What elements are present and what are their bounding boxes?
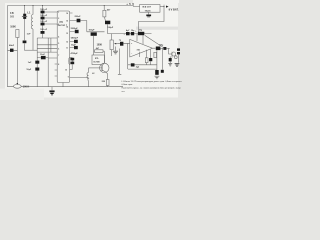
note text block [122, 81, 183, 93]
junction on rail at R2 [104, 5, 105, 6]
capacitor C3 100nF [41, 11, 45, 14]
wire feedback lower [128, 68, 157, 70]
svg-text:8: 8 [58, 64, 59, 66]
svg-text:4: 4 [58, 35, 59, 38]
wire C23 to ground [178, 54, 180, 62]
wire L2 to Q1 base [89, 67, 100, 69]
capacitor C7 10nF [41, 56, 46, 59]
capacitor C26 electrolytic to ground [155, 70, 159, 75]
regulator U3 78L05 body [140, 5, 160, 13]
svg-text:1µ: 1µ [119, 39, 121, 41]
wire pin9 to L2 [87, 77, 89, 79]
svg-text:909: 909 [10, 15, 15, 18]
svg-text:100µF: 100µF [89, 30, 96, 32]
wire left rail [7, 6, 9, 88]
wire regulator IN to battery [160, 6, 164, 8]
capacitor C27 to ground [161, 48, 164, 72]
svg-text:14: 14 [66, 25, 68, 28]
op-amp U2 741 [130, 39, 153, 57]
potentiometer P2 100K body [110, 40, 113, 50]
svg-text:100 nF: 100 nF [40, 9, 48, 11]
wire audio bus right [108, 33, 152, 35]
wire op-amp output chain [153, 47, 170, 49]
junction at output node [163, 47, 164, 48]
svg-text:3300pF: 3300pF [71, 28, 79, 30]
svg-text:100 nF: 100 nF [40, 15, 48, 17]
capacitor C18 4u7 on bus [126, 32, 130, 35]
svg-text:11: 11 [66, 47, 68, 49]
svg-text:Намотайте каркас, на строне ра: Намотайте каркас, на строне размером 2мм… [122, 87, 182, 90]
capacitor C6 100nF [41, 31, 45, 34]
wire stub below op-amp [139, 52, 141, 57]
svg-text:7: 7 [58, 55, 59, 57]
wire feedback vertical to input [127, 44, 129, 69]
svg-text:IN A OUT: IN A OUT [142, 6, 151, 9]
battery arrow [166, 6, 169, 8]
ground under C23 [175, 64, 180, 67]
wire pot wiper feed [16, 38, 18, 84]
capacitor C5 100nF [41, 23, 45, 26]
wires IC right pins [70, 13, 87, 78]
svg-text:+ 5 V: + 5 V [126, 2, 134, 6]
wire 9V feed from regulator [139, 7, 165, 33]
ground under C28 [168, 63, 172, 66]
svg-text:0,8мм пров.: 0,8мм пров. [122, 84, 134, 86]
svg-text:5C70B: 5C70B [93, 62, 100, 64]
resistor R6 220 emitter [106, 72, 109, 86]
junction on rail at L1 [33, 5, 34, 6]
wire feedback upper [128, 64, 157, 66]
svg-text:16: 16 [66, 13, 68, 15]
svg-text:10µF: 10µF [71, 44, 77, 46]
svg-text:3: 3 [58, 24, 59, 26]
pot P1 wiper arrowhead [16, 83, 18, 85]
capacitor C15 100uF electrolytic [105, 21, 110, 25]
wires pot P2 terminals [111, 34, 113, 56]
capacitor C25 to feedback [149, 50, 152, 65]
svg-text:9: 9 [68, 77, 69, 79]
resistor R4 to feedback [145, 50, 148, 65]
junction on rail at ladder [42, 5, 43, 6]
capacitor C17 coupling 1uF [120, 42, 123, 46]
svg-text:15: 15 [66, 20, 68, 22]
capacitor C1 on varicap branch [23, 41, 27, 44]
wire +5V top rail [8, 5, 134, 7]
wire tuning node horizontal [25, 49, 38, 51]
svg-text:(24): (24) [59, 21, 63, 24]
junction at feedback node [127, 43, 128, 44]
svg-text:13: 13 [66, 33, 68, 35]
svg-text:9 V BAT.: 9 V BAT. [169, 9, 179, 12]
capacitor C28 under jack [169, 56, 172, 63]
svg-text:12: 12 [66, 41, 68, 43]
wires IC left pins [37, 38, 57, 76]
ground under C26 [155, 76, 160, 79]
wire varicap branch [24, 6, 26, 51]
svg-text:10nF: 10nF [40, 54, 46, 56]
capacitor C19 10u on bus [131, 32, 134, 35]
capacitor C13 10uF [74, 46, 78, 49]
wire output to jack [169, 48, 172, 54]
capacitor C4 100nF [41, 17, 45, 20]
svg-text:100 nF: 100 nF [40, 29, 48, 31]
svg-text:2: 2 [58, 18, 59, 20]
wire IC bottom pin to ground bus [62, 83, 64, 87]
junction at battery node [163, 6, 164, 7]
inductor L2 [87, 68, 89, 87]
svg-text:78L05: 78L05 [145, 10, 152, 12]
svg-text:100 nF: 100 nF [40, 21, 48, 23]
wires op-amp supply stubs [137, 34, 143, 44]
wires ladder to IC pins 1-3 [45, 12, 58, 24]
filter box Z1 ETL 5C70B [92, 55, 105, 65]
wire vertical x48 [47, 38, 49, 87]
junction on rail at varicap [24, 5, 25, 6]
wire audio bus left [87, 31, 105, 33]
svg-text:10: 10 [65, 69, 67, 71]
wire regulator OUT to rail [134, 6, 140, 7]
wire C16 down to filter box [93, 36, 95, 55]
resistor R1 100K [16, 30, 19, 38]
svg-text:4700pF: 4700pF [71, 52, 79, 55]
resistor R2 4k7 [103, 10, 106, 17]
inductor L1 [31, 6, 33, 51]
capacitor C2 68nF [8, 49, 18, 52]
capacitor C9 10uF [35, 68, 39, 71]
varicap diode D1 KB909 [22, 14, 27, 19]
capacitor C8 1nF [35, 61, 39, 64]
wire output node down [156, 50, 158, 75]
capacitor C10 220nF [77, 19, 81, 23]
pin numbers 9-16 right [65, 13, 69, 79]
capacitor C12 6800pF [74, 40, 78, 43]
pin numbers 1-8 left [58, 12, 59, 66]
capacitor C23 right column [177, 48, 180, 54]
earphone jack BF1 inner circle [174, 56, 177, 59]
svg-text:L1-Виток 13 СПэлектропроводом: L1-Виток 13 СПэлектропроводом диам. пров… [122, 81, 183, 83]
wire from rail to R2 [103, 6, 105, 11]
wire C15 down to bus [107, 24, 109, 33]
wire with C7 into IC [37, 57, 57, 59]
svg-text:100K: 100K [10, 26, 16, 29]
svg-text:6: 6 [58, 48, 59, 50]
main ground symbol [49, 87, 54, 96]
capacitor C14 electrolytic stack [68, 57, 74, 69]
value label KB 909 [10, 11, 15, 18]
jack terminal bar [171, 52, 173, 58]
earphone jack BF1 outer circle [172, 52, 176, 56]
ground right of filter box [113, 47, 118, 54]
wire left cap column [36, 38, 38, 87]
svg-text:68nF: 68nF [9, 45, 15, 47]
wire diagonal supply to output node [145, 35, 164, 47]
svg-text:1: 1 [58, 12, 59, 14]
capacitor C22 on output node [163, 47, 166, 50]
resistor R5 collector load [94, 50, 105, 63]
wire wiper to op-amp input [117, 43, 129, 45]
capacitor C11 3300pF [75, 30, 79, 33]
svg-text:100 K: 100 K [23, 85, 30, 88]
IC U1 TDA7021T body [57, 11, 69, 83]
svg-text:220nF: 220nF [75, 16, 82, 18]
wire pin15 to audio bus [80, 21, 86, 32]
transistor Q1 [100, 63, 109, 72]
svg-text:6800pF: 6800pF [71, 38, 79, 40]
svg-text:1nF: 1nF [27, 34, 32, 36]
wire into IC y38 [37, 37, 54, 39]
wire vertical x51 [50, 38, 52, 52]
svg-text:10µF: 10µF [26, 69, 32, 71]
capacitor C21 100u output electrolytic [156, 47, 161, 51]
value labels 100nF ladder [40, 9, 48, 31]
svg-text:нет: нет [122, 91, 125, 93]
capacitor C16 100uF electrolytic [91, 32, 97, 35]
wire bottom ground bus [8, 86, 124, 88]
pot P2 wiper arrow [114, 43, 117, 44]
svg-text:100µF: 100µF [107, 27, 114, 29]
tuning pot P1 body [13, 84, 21, 88]
capacitor C20 10u electrolytic [138, 32, 144, 35]
wire R2 to C15 [104, 17, 105, 21]
ground under regulator [146, 12, 151, 17]
wire cap ladder column [42, 6, 44, 39]
svg-text:100µ: 100µ [159, 44, 164, 46]
resistor R3 below output [154, 52, 157, 57]
svg-text:5: 5 [58, 43, 59, 45]
svg-text:100K: 100K [97, 45, 103, 47]
capacitor C24 2u2 feedback [131, 63, 135, 66]
wire open terminal x119.5 [118, 49, 121, 75]
